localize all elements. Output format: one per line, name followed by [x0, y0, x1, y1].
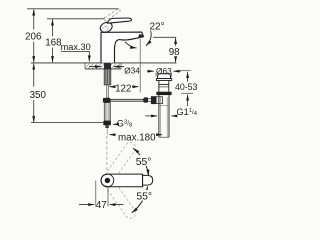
countertop deck surface line [31, 62, 177, 64]
lever knob (side view) [99, 20, 114, 34]
dimension max.180 [110, 134, 116, 136]
aerator at spout tip [138, 34, 144, 38]
dimension 98 [175, 38, 177, 62]
dimension 40-53 [178, 70, 191, 72]
extension line 168 level [47, 18, 105, 20]
22 degree swing arc rear [146, 31, 151, 46]
label 55 upper [136, 155, 152, 166]
svg-text:98: 98 [169, 47, 180, 58]
extension line spout outlet [153, 36, 176, 38]
dimension 122 [107, 82, 109, 92]
label 55 lower [136, 190, 152, 201]
dimension Ø34 arrows at shank [89, 66, 101, 68]
hose nut G3/8 [103, 121, 111, 125]
svg-text:40-53: 40-53 [175, 82, 198, 92]
svg-text:55°: 55° [136, 191, 152, 202]
dimension 47 [95, 181, 97, 207]
svg-text:Ø34: Ø34 [124, 66, 140, 76]
svg-text:max.180: max.180 [118, 133, 156, 144]
pop-up waste plug cap [158, 74, 171, 79]
supply hose [104, 103, 110, 121]
faucet threaded shank through deck [104, 63, 111, 70]
pop-up pull rod (vertical) [107, 85, 109, 98]
svg-text:Ø63: Ø63 [156, 66, 172, 76]
dimension 206 [33, 9, 35, 62]
pop-up rod clamp at faucet [103, 98, 110, 103]
swing arc lower 55 [132, 187, 148, 213]
lever blade (side view) [107, 18, 131, 23]
raised lever dashed outline [103, 8, 121, 21]
hose nipple end [105, 125, 108, 128]
faucet centerline to plan view [106, 128, 108, 135]
plan view: lever handle capsule [101, 174, 143, 187]
reference line hose end [31, 122, 103, 124]
plan view: dashed lever at +55 degrees (up) [102, 140, 138, 185]
plan view: dashed lever at -55 degrees (down) [102, 176, 138, 221]
label G3/8 with leader [113, 123, 116, 125]
pop-up waste locknut (dark band) [156, 92, 171, 95]
swing arc upper 55 [133, 148, 148, 176]
horizontal pop-up rod to waste [110, 99, 143, 101]
svg-text:350: 350 [30, 90, 47, 101]
svg-text:206: 206 [25, 32, 42, 43]
pop-up waste neck [159, 81, 169, 92]
plan view: knob circle [101, 174, 114, 187]
svg-text:122: 122 [115, 84, 131, 95]
svg-text:22°: 22° [150, 22, 165, 33]
pop-up rod ball joint [144, 97, 149, 102]
pop-up waste lever housing [156, 97, 162, 104]
plan view: pivot dot [105, 178, 110, 183]
svg-text:47: 47 [96, 200, 108, 211]
dimension G1 1/4 [145, 115, 157, 117]
22 degree swing arc front [125, 42, 137, 48]
countertop deck cross-section with hatching [85, 63, 121, 68]
extension line water outlet [139, 39, 141, 93]
faucet body and spout outline [101, 32, 143, 63]
dimension 168 [52, 19, 54, 62]
dimension 350 [33, 64, 35, 123]
svg-text:55°: 55° [136, 157, 152, 168]
dimension Ø63 [155, 73, 157, 77]
pop-up waste tailpipe [159, 95, 169, 137]
svg-text:168: 168 [45, 38, 62, 49]
extension line top (206 max height) [27, 8, 119, 10]
pop-up waste flange [156, 79, 171, 81]
svg-text:max.30: max.30 [61, 42, 91, 52]
